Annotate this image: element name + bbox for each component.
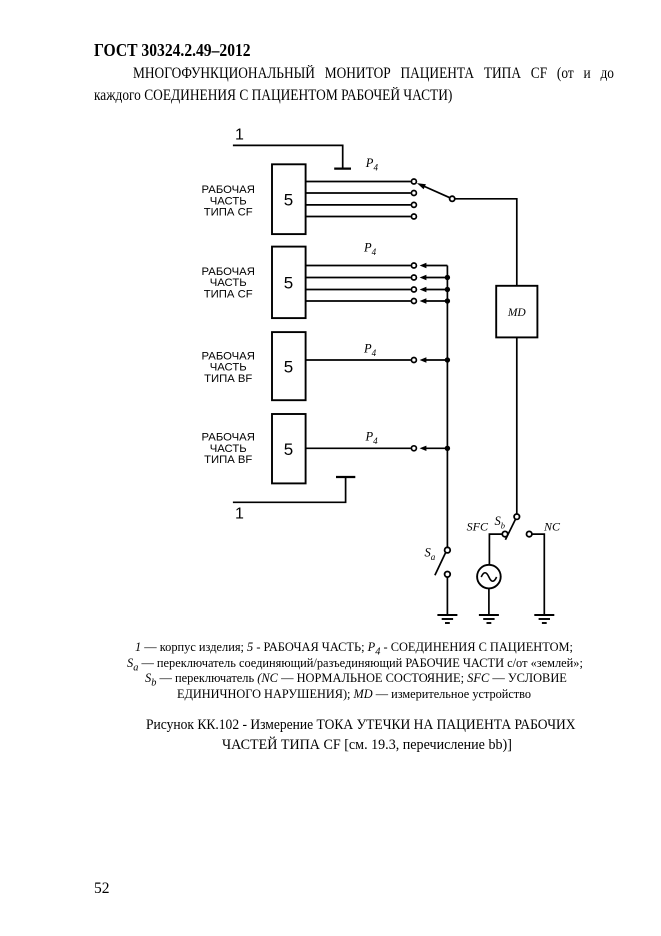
svg-text:ЧАСТЬ: ЧАСТЬ (210, 362, 247, 374)
wire source to ground (488, 588, 490, 615)
svg-text:ТИПА CF: ТИПА CF (204, 207, 253, 219)
wires group 2 patient connections (306, 266, 411, 302)
switch Sa arm (435, 553, 446, 576)
wire bottom lead 1 (233, 477, 346, 502)
label РАБОЧАЯ ЧАСТЬ ТИПА CF #2 (202, 266, 255, 301)
svg-text:ТИПА CF: ТИПА CF (204, 288, 253, 300)
wire group 4 patient connection (306, 447, 411, 449)
applied part box 5 #1 (type CF) (272, 164, 306, 234)
svg-text:5: 5 (284, 191, 293, 210)
ground under Sa (437, 615, 457, 623)
wire selector to MD (455, 199, 517, 286)
svg-text:NC: NC (543, 520, 561, 534)
switch Sa lower terminal (445, 572, 451, 578)
svg-text:ЧАСТЬ: ЧАСТЬ (210, 277, 247, 289)
bus junction dots (445, 275, 450, 451)
applied part box 5 #4 (type BF) (272, 414, 306, 483)
enclosure terminal bar bottom (336, 476, 355, 478)
svg-text:P4: P4 (363, 342, 377, 359)
wire Sa to ground (446, 577, 448, 615)
selector switch arm to MD (422, 185, 451, 198)
svg-text:5: 5 (284, 440, 293, 459)
patient connection terminal group 4 (411, 446, 416, 451)
wire group 3 patient connection (306, 359, 411, 361)
body paragraph line 1 (133, 65, 614, 83)
figure caption line 2 (222, 737, 512, 754)
earth bus arrow group 4 (426, 447, 447, 449)
legend line 1 (135, 639, 573, 658)
AC source circle (477, 565, 501, 589)
switch Sa pole terminal (445, 547, 451, 553)
applied part box 5 #3 (type BF) (272, 332, 306, 400)
patient connection terminals group 2 (411, 263, 416, 304)
figure caption line 1 (146, 717, 576, 734)
svg-text:ЧАСТЬ: ЧАСТЬ (210, 443, 247, 455)
svg-text:РАБОЧАЯ: РАБОЧАЯ (202, 350, 255, 362)
svg-text:SFC: SFC (467, 520, 489, 534)
wire NC contact to ground (532, 534, 544, 615)
legend line 4 (177, 686, 531, 702)
label РАБОЧАЯ ЧАСТЬ ТИПА BF #2 (202, 431, 255, 466)
ground under source (479, 615, 499, 623)
svg-text:РАБОЧАЯ: РАБОЧАЯ (202, 184, 255, 196)
svg-text:1: 1 (235, 506, 244, 523)
legend line 2 (127, 655, 583, 674)
earth bus arrow group 3 (426, 359, 447, 361)
svg-text:ТИПА BF: ТИПА BF (204, 454, 252, 466)
svg-text:Sb: Sb (495, 514, 506, 531)
earth bus arrows group 2 (426, 266, 447, 302)
svg-text:MD: MD (507, 307, 527, 319)
NC contact terminal (527, 531, 532, 536)
svg-text:P4: P4 (365, 430, 379, 447)
svg-text:P4: P4 (365, 156, 379, 173)
applied part box 5 #2 (type CF) (272, 247, 306, 319)
svg-text:1: 1 (235, 127, 244, 144)
legend line 3 (145, 670, 567, 689)
enclosure terminal bar top (334, 168, 351, 170)
SFC contact terminal (502, 531, 507, 536)
svg-text:РАБОЧАЯ: РАБОЧАЯ (202, 431, 255, 443)
header ГОСТ (94, 40, 251, 61)
ground under NC (534, 615, 554, 623)
wire SFC contact to source (489, 534, 501, 565)
svg-text:P4: P4 (363, 240, 377, 256)
label РАБОЧАЯ ЧАСТЬ ТИПА BF #1 (202, 350, 255, 385)
svg-text:ЧАСТЬ: ЧАСТЬ (210, 195, 247, 207)
patient connection terminals group 1 (411, 179, 416, 219)
switch Sb arm (505, 519, 515, 540)
sine wave (481, 573, 496, 582)
patient connection terminal group 3 (411, 358, 416, 363)
wire top lead 1 (233, 145, 343, 167)
wire MD to switch Sb (516, 337, 518, 513)
svg-text:5: 5 (284, 274, 293, 293)
measuring device MD box (496, 286, 537, 338)
selector pivot terminal (450, 196, 455, 201)
body paragraph line 2 (94, 87, 452, 105)
svg-text:РАБОЧАЯ: РАБОЧАЯ (202, 266, 255, 278)
label РАБОЧАЯ ЧАСТЬ ТИПА CF #1 (202, 184, 255, 219)
page number (94, 880, 110, 898)
wires group 1 patient connections (306, 182, 411, 217)
svg-text:Sa: Sa (425, 546, 436, 563)
svg-text:ТИПА BF: ТИПА BF (204, 373, 252, 385)
selector arrowhead (417, 183, 426, 189)
svg-text:5: 5 (284, 357, 293, 376)
switch Sb pole terminal (514, 514, 519, 519)
earth bus vertical (446, 266, 448, 548)
